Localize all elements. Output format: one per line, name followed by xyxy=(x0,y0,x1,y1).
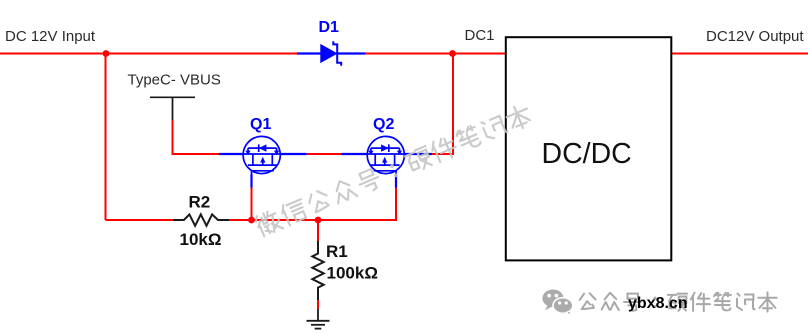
component U1: DC/DC converter box xyxy=(506,37,672,260)
port TypeC- VBUS (bar symbol) xyxy=(150,97,195,120)
wire: Q1 gate node to R1 node xyxy=(252,219,319,221)
svg-text:R2: R2 xyxy=(189,193,211,212)
wire: Q2 gate lead (red part down to divider row) xyxy=(395,188,397,221)
wire: DC12V output rail from box to right edge xyxy=(671,53,808,55)
wire: blue lead into Q1 source xyxy=(219,153,244,155)
wire: blue lead into Q2 drain xyxy=(405,153,433,155)
wire: vertical from DC1 junction down to Q2 drain row xyxy=(432,54,453,155)
wire: DC 12V input rail from left edge to junction xyxy=(0,53,106,55)
wire: red segment below R1 xyxy=(317,300,319,309)
wire: VBUS drop down and over to Q1 source xyxy=(173,120,220,154)
wire: Q1 gate lead (red part down to divider node) xyxy=(251,188,253,221)
wire: Q2 gate lead (blue part) xyxy=(395,175,397,188)
svg-text:DC12V Output: DC12V Output xyxy=(706,28,804,45)
svg-text:ybx8.cn: ybx8.cn xyxy=(628,295,688,312)
node: junction R2 / Q1 gate (red dot) xyxy=(248,217,255,224)
svg-text:Q1: Q1 xyxy=(250,116,271,133)
svg-text:DC 12V Input: DC 12V Input xyxy=(5,28,96,45)
wire: input rail from junction to D1 anode lead xyxy=(106,53,297,55)
svg-text:D1: D1 xyxy=(319,19,340,36)
svg-text:100kΩ: 100kΩ xyxy=(327,264,378,283)
svg-text:R1: R1 xyxy=(326,242,348,261)
svg-text:DC1: DC1 xyxy=(465,27,495,44)
node: junction R1 top (red dot) xyxy=(315,217,322,224)
ground xyxy=(307,309,330,329)
svg-text:Q2: Q2 xyxy=(373,116,394,133)
wire: bottom row from left drop to R2 xyxy=(106,219,174,221)
transistor Q2 (P-MOSFET, mirrored, body diode pointing right) xyxy=(367,136,404,174)
wire: rail from D1 cathode to DC1 junction xyxy=(365,53,453,55)
wire: blue lead into Q2 source xyxy=(341,153,367,155)
watermark: bottom banner (WeChat logo + 公众号：硬件笔记本) xyxy=(542,290,776,316)
svg-text:10kΩ: 10kΩ xyxy=(180,230,222,249)
node: junction of input rail and left drop (red dot) xyxy=(103,50,110,57)
resistor R1 xyxy=(312,241,323,300)
wire: center red segment between Q1 and Q2 xyxy=(307,153,342,155)
svg-text:DC/DC: DC/DC xyxy=(542,138,632,170)
wire: rail from DC1 junction to DC/DC box xyxy=(453,53,506,55)
wire: R2 to Q1 gate node xyxy=(229,219,252,221)
svg-text:TypeC- VBUS: TypeC- VBUS xyxy=(128,72,221,89)
watermark: diagonal 微信公众号：硬件笔记本 xyxy=(254,103,533,238)
wire: Q1 drain to Q2 drain (blue lead) xyxy=(280,153,307,155)
wire: red lead from divider row down to R1 xyxy=(317,220,319,241)
node DC1 (red junction dot) xyxy=(449,50,456,57)
transistor Q1 (P-MOSFET, body diode pointing left) xyxy=(243,136,280,174)
wire: Q1 gate lead (blue part) xyxy=(250,175,252,188)
wire: R1 node to Q2 gate corner xyxy=(318,219,397,221)
wire: left vertical drop from input rail down to R2 row xyxy=(105,54,107,221)
diode D1 (Schottky) xyxy=(297,41,365,66)
resistor R2 xyxy=(173,214,229,225)
